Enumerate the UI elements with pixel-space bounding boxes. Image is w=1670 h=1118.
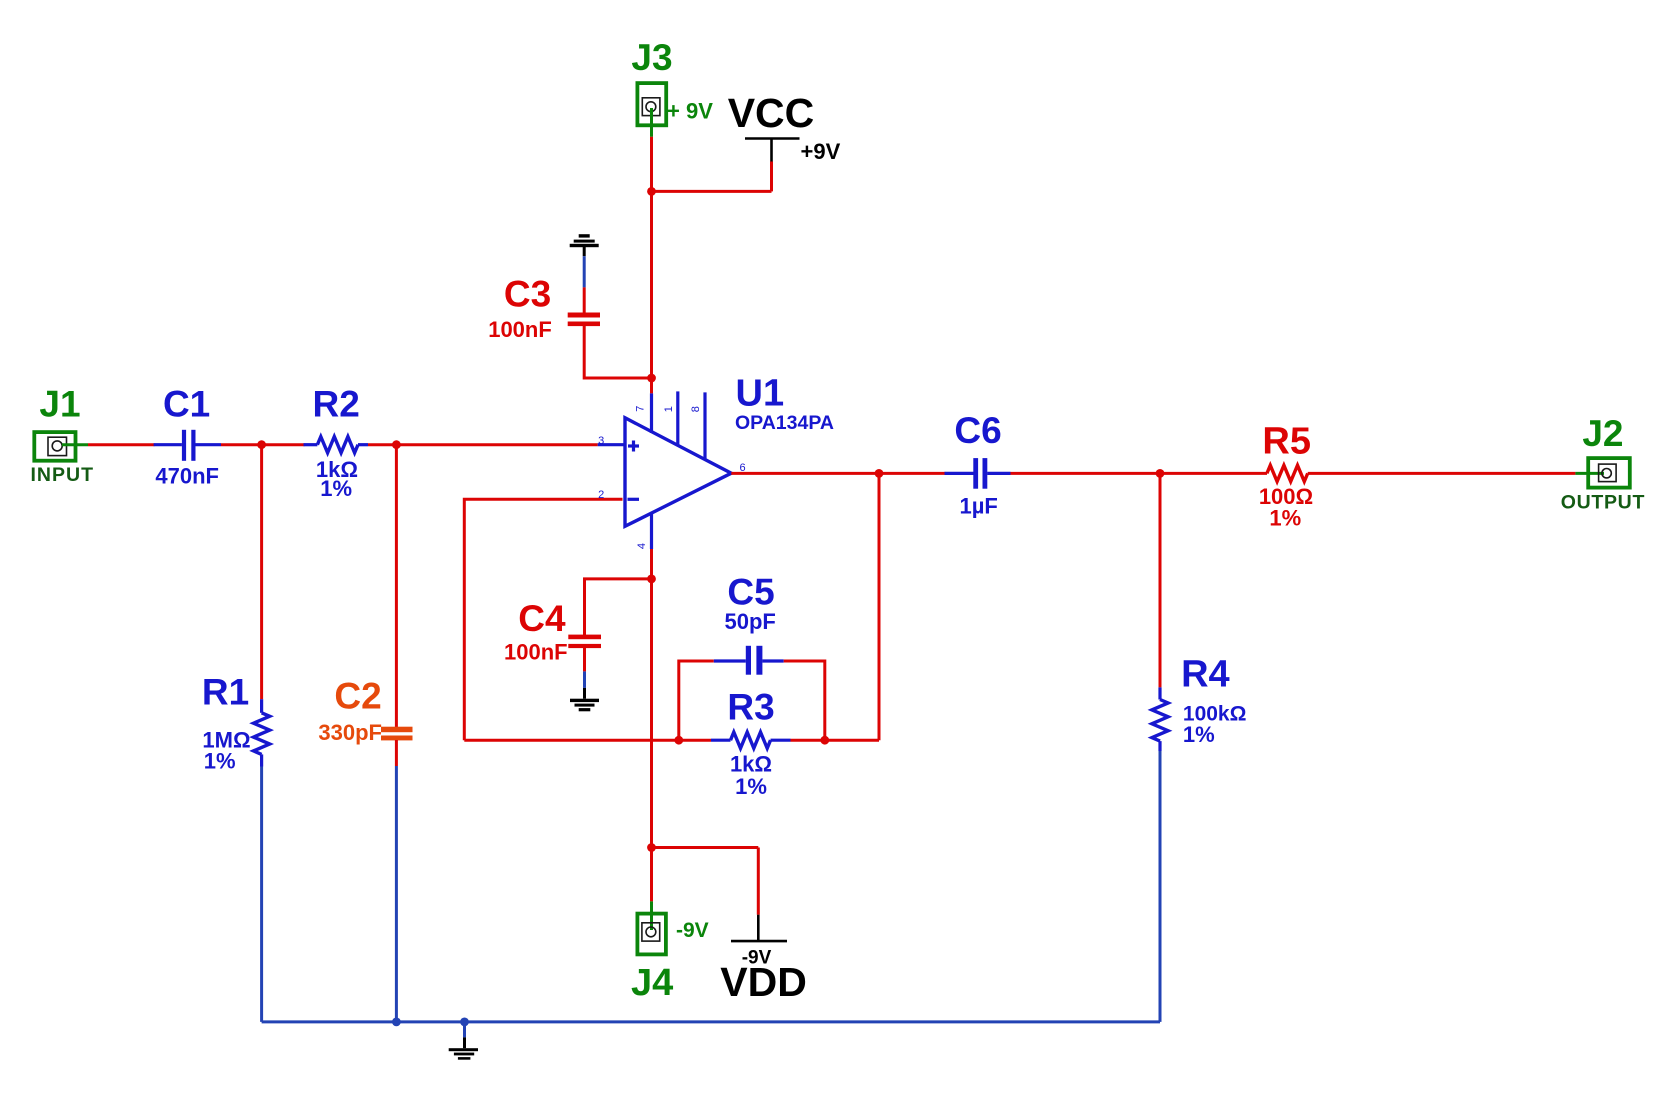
svg-text:VCC: VCC <box>728 90 815 136</box>
junction R1 tap <box>257 440 266 449</box>
wire VCC stem red <box>770 162 773 192</box>
capacitor C1 <box>154 430 221 461</box>
svg-text:1%: 1% <box>1269 506 1301 531</box>
svg-text:1kΩ: 1kΩ <box>730 752 772 777</box>
wire R4 to bottom rail (blue) <box>1159 751 1162 1022</box>
capacitor C4 <box>568 635 601 649</box>
svg-text:C1: C1 <box>163 383 210 424</box>
junction feedback tap <box>875 469 884 478</box>
svg-text:C5: C5 <box>727 572 774 613</box>
wire bottom ground rail (blue) <box>262 1020 1160 1023</box>
ground below C4 <box>570 688 599 711</box>
wire C2 to bottom rail (blue) <box>395 766 398 1022</box>
svg-text:330pF: 330pF <box>318 720 382 745</box>
wire feedback bottom right <box>791 739 880 742</box>
capacitor C6 <box>945 458 1011 489</box>
wire J3 pin (green) <box>650 108 653 137</box>
wire J1 pin (green) <box>62 443 88 446</box>
junction ground/bottom rail <box>460 1018 469 1027</box>
svg-text:1: 1 <box>663 406 675 412</box>
junction C2 tap <box>392 440 401 449</box>
wire U1 pin 6 to C6 <box>731 472 945 475</box>
svg-text:R1: R1 <box>202 671 249 712</box>
svg-text:U1: U1 <box>736 373 785 415</box>
wire feedback right vertical <box>878 473 881 740</box>
wire J3 to VCC tap and down to U1 pin 7 <box>650 137 653 394</box>
svg-text:J3: J3 <box>631 37 672 78</box>
wire C5 right loop (red) <box>784 661 825 740</box>
wire C3 bottom to tap <box>584 325 651 378</box>
svg-text:C4: C4 <box>518 598 566 639</box>
wire C1 to R2 <box>221 443 305 446</box>
svg-text:INPUT: INPUT <box>31 464 95 486</box>
wire feedback bottom left <box>464 739 711 742</box>
capacitor C5 <box>714 646 784 675</box>
wire VCC tap horizontal <box>652 190 772 193</box>
wire C5 left loop (red) <box>679 661 714 740</box>
pin 7 wire <box>650 393 653 433</box>
wire J1 to C1 <box>88 443 155 446</box>
wire ground stub (blue) <box>463 1022 466 1038</box>
junction C3 tap <box>647 374 656 383</box>
pin 8 wire <box>703 392 706 459</box>
wire VDD tap horizontal <box>652 846 759 849</box>
wire R2 to U1 pin 3 <box>368 443 598 446</box>
wire C4 to ground (red) <box>583 648 586 671</box>
svg-text:100nF: 100nF <box>504 640 568 665</box>
svg-text:R4: R4 <box>1181 654 1230 696</box>
svg-text:2: 2 <box>598 489 604 501</box>
svg-text:OPA134PA: OPA134PA <box>735 412 834 434</box>
svg-text:7: 7 <box>635 406 647 412</box>
wire ground to C3 (red segment) <box>583 287 586 313</box>
wire J2 pin (green) <box>1575 472 1604 475</box>
wire R4 branch (red vertical) <box>1159 473 1162 687</box>
svg-text:J1: J1 <box>39 383 80 424</box>
resistor R3 <box>711 732 791 748</box>
svg-text:1%: 1% <box>1183 722 1215 747</box>
connector J3 <box>637 83 666 125</box>
svg-text:+ 9V: + 9V <box>667 99 713 124</box>
pin 1 wire <box>676 391 679 445</box>
op-amp U1 <box>625 418 731 527</box>
junction J3/VCC <box>647 187 656 196</box>
svg-text:470nF: 470nF <box>155 464 219 489</box>
wire R1 branch (red vertical) <box>260 445 263 700</box>
svg-text:OUTPUT: OUTPUT <box>1561 492 1645 514</box>
power symbol VDD -9V bar <box>731 915 787 941</box>
power symbol VCC +9V bar <box>745 139 800 162</box>
svg-text:-9V: -9V <box>676 919 709 942</box>
svg-text:8: 8 <box>690 406 702 412</box>
pin 4 wire <box>650 513 653 549</box>
junction J4/VDD <box>647 843 656 852</box>
svg-text:R5: R5 <box>1262 420 1311 462</box>
connector J2 <box>1588 458 1630 488</box>
svg-text:R3: R3 <box>727 687 774 728</box>
resistor R5 <box>1267 465 1308 481</box>
wire C2 bottom stub (red) <box>395 740 398 766</box>
wire C4 tap horizontal <box>585 579 652 636</box>
pin 3 stub (blue) <box>598 443 625 446</box>
capacitor C2 <box>381 727 413 741</box>
ground above C3 (inverted) <box>570 234 599 256</box>
wire VDD stem red <box>757 848 760 915</box>
connector J1 <box>34 432 75 461</box>
capacitor C3 <box>568 313 600 327</box>
junction C5 right <box>820 736 829 745</box>
svg-text:3: 3 <box>598 435 604 447</box>
svg-text:+9V: +9V <box>801 139 841 164</box>
wire ground to C3 (blue segment) <box>583 256 586 287</box>
resistor R4 <box>1152 687 1168 751</box>
resistor R1 <box>254 699 270 766</box>
junction C5 left <box>674 736 683 745</box>
resistor R2 <box>304 437 369 453</box>
wire R1 to bottom rail (blue) <box>260 767 263 1022</box>
svg-text:VDD: VDD <box>720 959 807 1005</box>
wire R5 to J2 <box>1308 472 1576 475</box>
wire C6 to R5 <box>1011 472 1268 475</box>
svg-text:1%: 1% <box>320 476 352 501</box>
wire U1 pin 4 down to J4 <box>650 549 653 901</box>
wire C2 branch (red vertical) <box>395 445 398 727</box>
connector J4 <box>637 914 666 955</box>
svg-text:100nF: 100nF <box>488 317 552 342</box>
svg-text:1%: 1% <box>204 748 236 773</box>
svg-text:J2: J2 <box>1582 413 1623 454</box>
svg-text:1%: 1% <box>735 774 767 799</box>
wire J4 pin (green) <box>650 901 653 930</box>
junction C2/bottom rail <box>392 1018 401 1027</box>
wire C4 to ground (blue) <box>583 671 586 688</box>
svg-text:J4: J4 <box>631 962 673 1004</box>
junction C4 tap <box>647 575 656 584</box>
svg-text:C6: C6 <box>954 410 1001 451</box>
svg-text:C2: C2 <box>334 676 381 717</box>
svg-text:C3: C3 <box>504 274 551 315</box>
wire U1 pin 2 to feedback (red) <box>464 499 622 740</box>
svg-text:1µF: 1µF <box>960 494 998 519</box>
ground bottom center <box>449 1037 478 1059</box>
junction R4 tap <box>1156 469 1165 478</box>
svg-text:4: 4 <box>636 543 648 549</box>
svg-text:R2: R2 <box>313 383 360 424</box>
svg-text:50pF: 50pF <box>725 609 776 634</box>
